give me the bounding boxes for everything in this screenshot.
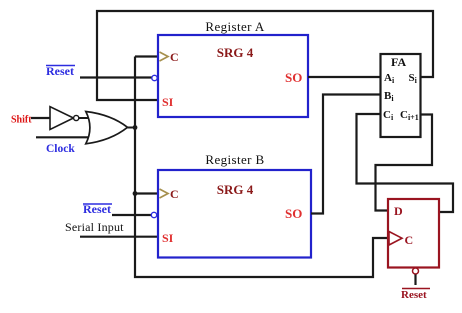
wire: reset stub to D flip-flop bubble <box>414 275 416 286</box>
junction: clock branch node at Register B <box>133 191 138 196</box>
svg-text:C: C <box>405 233 414 247</box>
wire: Register A SO to FA Ai <box>308 76 381 78</box>
wire: Shift to inverter input <box>31 117 50 119</box>
D flip-flop reset bubble <box>413 268 419 274</box>
svg-text:Reset: Reset <box>401 289 427 301</box>
OR gate U1 <box>86 112 128 144</box>
wire: FA Si output to Register A SI (top loop) <box>97 11 433 100</box>
register B box (SRG 4) <box>158 170 311 258</box>
label Reset (Register B, active-low) <box>83 202 112 216</box>
register A clock triangle <box>160 52 169 61</box>
junction: clock node at OR output <box>133 125 138 130</box>
full adder FA box <box>381 54 421 137</box>
register A box (SRG 4) <box>158 35 308 117</box>
D flip-flop clock triangle <box>389 232 402 246</box>
wire: Clock to OR gate <box>36 136 93 138</box>
label Reset (Register A, active-low) <box>46 64 75 78</box>
D flip-flop box <box>388 199 439 268</box>
svg-text:Serial Input: Serial Input <box>65 220 124 234</box>
wire: inverter to OR gate <box>79 117 90 119</box>
wire: clock branch to Register B C input <box>135 192 158 194</box>
wire: Reset to Register A bubble <box>80 76 152 78</box>
wire: Register B SO to FA Bi <box>311 95 381 214</box>
register A reset bubble <box>152 75 157 80</box>
wire: D flip-flop Q output to FA Ci <box>357 114 454 212</box>
wire: clock branch to Register A C input <box>135 55 158 57</box>
svg-text:SRG 4: SRG 4 <box>217 182 254 197</box>
svg-text:D: D <box>394 204 403 218</box>
svg-text:Clock: Clock <box>46 143 75 155</box>
register B clock triangle <box>160 189 169 198</box>
wire: Reset to Register B bubble <box>112 214 152 216</box>
wire: FA Ci+1 to D flip-flop D input <box>376 115 433 211</box>
svg-text:SI: SI <box>162 231 174 245</box>
svg-text:C: C <box>170 50 179 64</box>
svg-text:Register B: Register B <box>205 152 264 167</box>
label Reset (D flip-flop, active-low) <box>401 289 430 302</box>
svg-text:FA: FA <box>391 55 406 69</box>
svg-text:Shift: Shift <box>11 115 32 126</box>
svg-text:SO: SO <box>285 206 302 221</box>
inverter (NOT gate) <box>50 107 79 130</box>
wire: Serial Input to Register B SI <box>80 236 158 238</box>
wire: clock vertical trunk down to D flip-flop C input <box>135 57 388 278</box>
svg-text:SRG 4: SRG 4 <box>217 45 254 60</box>
wire: OR gate output to clock node <box>128 127 136 129</box>
svg-text:Register A: Register A <box>205 19 264 34</box>
register B reset bubble <box>151 212 156 217</box>
svg-text:SI: SI <box>162 95 174 109</box>
svg-text:C: C <box>170 187 179 201</box>
svg-text:SO: SO <box>285 70 302 85</box>
